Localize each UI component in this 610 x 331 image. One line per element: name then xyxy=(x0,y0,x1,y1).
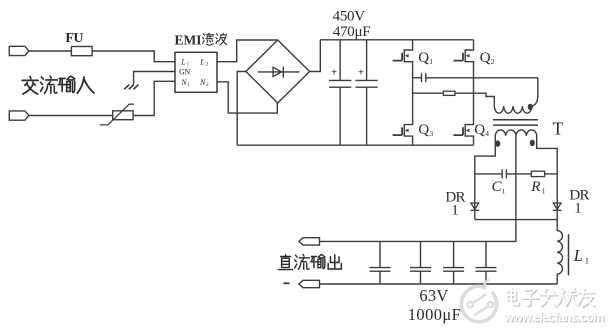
svg-text:Q: Q xyxy=(480,50,491,66)
svg-text:T: T xyxy=(553,118,564,138)
svg-text:1000μF: 1000μF xyxy=(408,305,461,324)
svg-text:L: L xyxy=(573,246,583,265)
svg-text:EMI: EMI xyxy=(175,32,202,47)
svg-text:+: + xyxy=(358,68,364,79)
svg-text:Q: Q xyxy=(474,122,485,138)
svg-text:470μF: 470μF xyxy=(333,24,370,40)
svg-text:1: 1 xyxy=(451,203,459,219)
svg-text:450V: 450V xyxy=(333,8,366,24)
svg-text:N: N xyxy=(180,78,187,87)
svg-text:3: 3 xyxy=(429,129,433,138)
svg-text:Q: Q xyxy=(418,122,429,138)
svg-text:L: L xyxy=(199,57,205,66)
svg-text:1: 1 xyxy=(542,186,546,195)
svg-text:R: R xyxy=(530,179,540,195)
svg-text:2: 2 xyxy=(206,62,209,68)
svg-text:L: L xyxy=(180,57,186,66)
svg-text:2: 2 xyxy=(491,57,495,66)
svg-text:1: 1 xyxy=(429,57,433,66)
svg-text:+: + xyxy=(331,68,337,79)
svg-text:1: 1 xyxy=(502,186,506,195)
svg-text:2: 2 xyxy=(206,82,209,88)
svg-text:N: N xyxy=(199,78,206,87)
svg-text:4: 4 xyxy=(485,129,489,138)
svg-text:1: 1 xyxy=(187,82,190,88)
svg-text:63V: 63V xyxy=(419,286,448,305)
svg-text:www.elecfans.com: www.elecfans.com xyxy=(503,310,604,324)
svg-text:FU: FU xyxy=(65,31,83,46)
svg-text:Q: Q xyxy=(418,50,429,66)
svg-text:1: 1 xyxy=(585,255,589,265)
svg-text:1: 1 xyxy=(574,201,582,217)
svg-text:GN: GN xyxy=(179,68,190,77)
